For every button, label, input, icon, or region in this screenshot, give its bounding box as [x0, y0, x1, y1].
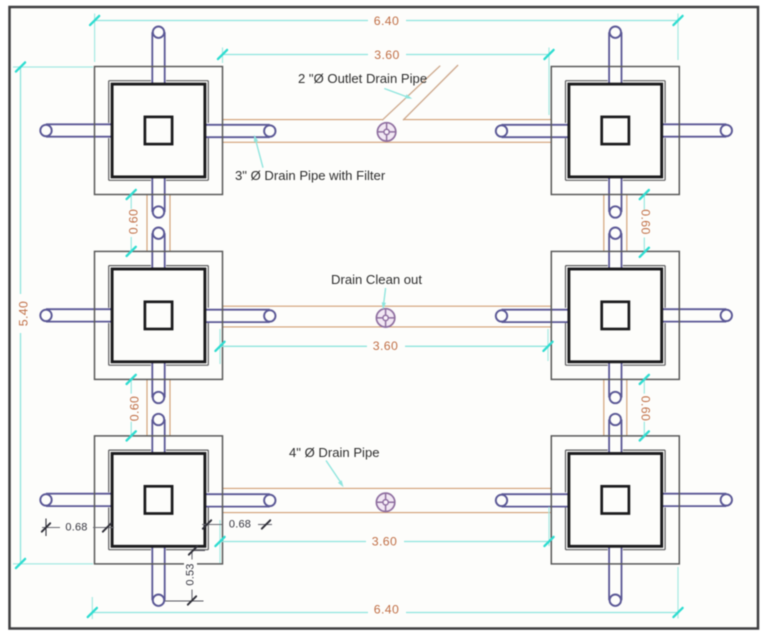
vertical drain line pair left column rows2-3	[146, 379, 148, 436]
dimension 0.53: tick top	[189, 546, 197, 554]
svg-text:0.60: 0.60	[127, 396, 141, 422]
vertical drain line pair right column rows2-3	[603, 379, 605, 436]
dimension 0.68 middle: dimension line	[202, 524, 222, 526]
dimension 0.68 middle: tick right	[262, 520, 270, 528]
svg-text:0.68: 0.68	[65, 522, 87, 534]
footing left top: thin inner square (gapped at pipes)	[109, 80, 151, 82]
dimension 0.68 middle: tick left	[203, 520, 211, 528]
pipe stub right column below row2	[608, 362, 610, 398]
right outer pipe top row	[662, 123, 727, 125]
dimension 0.53: white gap for text	[184, 560, 197, 590]
left outer pipe bottom row	[46, 493, 112, 495]
bottom pipe stub right column row3	[608, 546, 610, 600]
dimension 0.60 left rows1-2: dimension line	[130, 195, 132, 209]
right outer pipe middle row	[662, 308, 727, 310]
footing left bottom: thin inner square (gapped at pipes)	[109, 449, 151, 451]
footing right top: outer pad square	[551, 67, 679, 195]
footing left bottom: outer pad square	[95, 436, 223, 564]
4-inch drain pipe run row2 upper line	[223, 305, 552, 307]
dimension 0.60 right rows1-2: tick top	[640, 190, 649, 199]
footing left top: column square	[145, 117, 172, 144]
dimension 0.53: tick bottom	[188, 596, 196, 604]
dimension 3.60 top: dimension line	[223, 54, 369, 56]
svg-text:2 "Ø Outlet Drain Pipe: 2 "Ø Outlet Drain Pipe	[298, 71, 427, 86]
footing left middle: outer pad square	[95, 251, 223, 379]
dimension 0.60 right rows2-3: tick top	[640, 375, 649, 384]
svg-text:3.60: 3.60	[374, 48, 400, 62]
left outer pipe top row	[46, 123, 112, 125]
footing left top: outer pad square	[95, 67, 223, 195]
dimension 6.40 top: tick left	[90, 16, 99, 25]
dimension 0.53: dimension line	[191, 551, 193, 601]
dimension 5.40 left: tick bottom	[16, 559, 25, 568]
dimension 3.60 middle: tick right	[543, 342, 552, 351]
svg-text:3.60: 3.60	[372, 534, 398, 548]
svg-text:3.60: 3.60	[373, 339, 399, 353]
dimension 0.60 right rows2-3: dimension line	[643, 379, 645, 393]
footing left middle: thin inner square (gapped at pipes)	[109, 265, 151, 267]
svg-text:0.60: 0.60	[638, 396, 652, 422]
footing right top: thin inner square (gapped at pipes)	[566, 80, 608, 82]
svg-text:4" Ø Drain Pipe: 4" Ø Drain Pipe	[289, 445, 380, 460]
top pipe stub left column row1	[151, 32, 153, 84]
svg-text:0.60: 0.60	[126, 209, 140, 235]
footing right middle: thin inner square (gapped at pipes)	[566, 265, 608, 267]
left outer pipe middle row	[46, 308, 112, 310]
label 4-inch drain pipe leader	[326, 461, 342, 484]
footing left middle: column square	[145, 302, 172, 329]
svg-text:0.68: 0.68	[229, 519, 251, 531]
dimension 0.53: extension line top	[192, 550, 205, 552]
inner pipe from left footing bottom row	[205, 493, 270, 495]
dimension 3.60 top: tick right	[544, 50, 553, 59]
label drain clean out leader	[384, 288, 386, 305]
4-inch drain pipe run row3 upper line	[223, 487, 552, 489]
footing right top: column square	[602, 117, 629, 144]
footing left middle: thick pedestal square	[112, 269, 205, 362]
dimension 3.60 top: tick left	[218, 50, 227, 59]
drain clean-out symbol top row	[377, 123, 395, 141]
inner pipe from right footing top row	[502, 124, 569, 126]
2-inch outlet drain pipe diagonal line 1	[382, 66, 440, 121]
dimension 0.60 left rows1-2: tick bottom	[127, 247, 136, 256]
dimension 6.40 top: extension lines	[94, 14, 96, 63]
footing right bottom: thick pedestal square	[569, 454, 662, 547]
dimension 3.60 middle: extension lines	[219, 329, 221, 364]
dimension 0.68 left: extension line	[45, 519, 47, 537]
dimension 3.60 bottom: dimension line	[220, 541, 366, 543]
svg-text:6.40: 6.40	[374, 14, 400, 28]
dimension 0.60 left rows2-3: tick bottom	[127, 431, 136, 440]
footing left bottom: column square	[145, 486, 172, 513]
svg-text:3" Ø Drain Pipe with Filter: 3" Ø Drain Pipe with Filter	[235, 168, 386, 183]
dimension 0.68 left: tick left	[42, 523, 50, 531]
inner pipe from right footing bottom row	[502, 493, 569, 495]
dimension 6.40 bottom: dimension line	[92, 612, 368, 614]
dimension 3.60 middle: dimension line	[220, 345, 367, 347]
footing right middle: outer pad square	[551, 251, 679, 379]
vertical drain line pair left column rows1-2	[146, 195, 148, 252]
label 2-inch outlet drain pipe leader	[384, 89, 409, 98]
inner pipe from left footing middle row	[205, 309, 270, 311]
dimension 0.60 left rows2-3: dimension line	[130, 379, 132, 393]
4-inch drain pipe run row3 lower line	[223, 512, 552, 514]
dimension 0.60 left rows1-2: tick top	[127, 190, 136, 199]
dimension 0.60 right rows2-3: tick bottom	[640, 431, 649, 440]
dimension 3.60 bottom: tick right	[544, 537, 553, 546]
pipe stub right column above row3	[608, 420, 610, 454]
dimension 3.60 top: extension lines	[222, 48, 224, 64]
dimension 6.40 top: dimension line	[95, 20, 368, 22]
drain clean-out symbol middle row	[376, 309, 394, 327]
dimension 5.40 left: extension lines	[13, 66, 93, 68]
dimension 0.60 right rows1-2: dimension line	[643, 195, 645, 210]
top pipe stub right column row1	[608, 32, 610, 84]
svg-text:5.40: 5.40	[17, 301, 31, 327]
pipe stub left column below row2	[151, 362, 153, 398]
dimension 6.40 top: tick right	[673, 16, 682, 25]
4-inch drain pipe run row2 lower line	[223, 326, 552, 328]
dimension 5.40 left: dimension line	[20, 67, 22, 294]
pipe stub right column below row1	[608, 177, 610, 212]
footing right bottom: column square	[602, 486, 629, 513]
dimension 0.60 right rows1-2: tick bottom	[640, 248, 649, 257]
dimension 5.40 left: tick top	[16, 62, 25, 71]
dimension 6.40 bottom: tick right	[673, 608, 682, 617]
dimension 3.60 middle: tick left	[215, 342, 224, 351]
footing left bottom: thick pedestal square	[112, 454, 205, 547]
right outer pipe bottom row	[662, 493, 727, 495]
dimension 0.68 left: tick right	[103, 523, 111, 531]
footing right top: thick pedestal square	[569, 84, 662, 177]
4-inch drain pipe run row1 upper line (with gap at outlet tee)	[223, 119, 383, 121]
vertical drain line pair right column rows1-2	[603, 195, 605, 252]
dimension 3.60 bottom: extension lines	[219, 520, 221, 563]
4-inch drain pipe run row1 lower line	[223, 141, 552, 143]
inner pipe from left footing top row	[205, 124, 270, 126]
dimension 6.40 bottom: tick left	[88, 608, 97, 617]
label 3-inch drain pipe with filter leader	[256, 140, 264, 168]
footing right middle: thick pedestal square	[569, 269, 662, 362]
svg-text:0.60: 0.60	[638, 209, 652, 235]
svg-text:0.53: 0.53	[184, 563, 196, 585]
pipe stub left column above row2	[151, 233, 153, 269]
inner pipe from right footing middle row	[502, 309, 569, 311]
2-inch outlet drain pipe diagonal line 2	[403, 65, 458, 120]
footing right middle: column square	[602, 302, 629, 329]
pipe stub left column below row1	[151, 177, 153, 212]
footing right bottom: outer pad square	[551, 436, 679, 564]
dimension 0.60 left rows2-3: tick top	[127, 375, 136, 384]
dimension 0.53: extension line bottom	[165, 600, 204, 602]
dimension 3.60 bottom: tick left	[215, 537, 224, 546]
pipe stub right column above row2	[608, 233, 610, 269]
footing right bottom: thin inner square (gapped at pipes)	[566, 449, 608, 451]
dimension 0.68 left: dimension line	[42, 527, 60, 529]
pipe stub left column above row3	[151, 420, 153, 454]
dimension 6.40 bottom: extension lines	[91, 597, 93, 619]
footing left top: thick pedestal square	[112, 84, 205, 177]
bottom pipe stub left column row3	[151, 546, 153, 600]
svg-text:Drain Clean out: Drain Clean out	[331, 272, 422, 287]
drain clean-out symbol bottom row	[376, 493, 394, 511]
svg-text:6.40: 6.40	[374, 602, 400, 616]
